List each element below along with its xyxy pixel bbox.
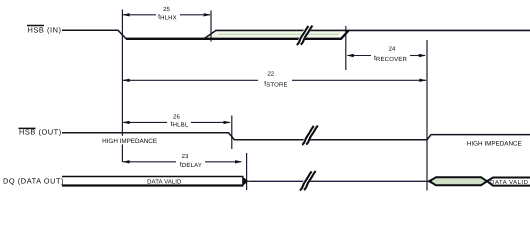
extent line x=211: [210, 11, 212, 42]
wire HSB(OUT) waveform: [62, 133, 530, 140]
svg-text:22: 22: [267, 71, 274, 78]
node label HSB (OUT): [19, 128, 62, 137]
dimension 25 tHLHX: [122, 6, 210, 21]
extent line x=122: [121, 10, 123, 163]
svg-text:tHLHX: tHLHX: [158, 14, 177, 22]
extent line x=345.8: [345, 26, 347, 70]
svg-text:tHLBL: tHLBL: [171, 121, 189, 129]
break mark on HSB(IN) band: [297, 26, 313, 45]
node DQ invalid (green) bus: [427, 177, 487, 185]
text HIGH IMPEDANCE left: [102, 136, 158, 145]
extent line x=246.6: [246, 153, 248, 190]
svg-text:25: 25: [163, 6, 170, 13]
svg-text:23: 23: [182, 153, 189, 160]
svg-text:DATA VALID: DATA VALID: [490, 179, 528, 186]
wire HSB(IN) high + fall + low: [62, 30, 206, 38]
dimension 24 tRECOVER: [347, 45, 426, 63]
node DQ left DATA VALID bus: [62, 176, 248, 186]
node HSB(IN) dont-care band fill: [206, 31, 340, 39]
svg-text:26: 26: [173, 113, 180, 120]
extent line x=232.5: [231, 116, 233, 150]
break mark on DQ: [300, 171, 316, 190]
svg-text:HIGH IMPEDANCE: HIGH IMPEDANCE: [102, 138, 157, 145]
svg-text:DATA VALID: DATA VALID: [147, 179, 182, 186]
dimension 23 tDELAY: [122, 153, 242, 169]
wire HSB(IN) band bottom thick + close rise: [126, 31, 349, 39]
wire HSB(IN) band open diagonal and top line: [205, 30, 530, 38]
svg-text:tSTORE: tSTORE: [264, 81, 288, 89]
svg-text:tDELAY: tDELAY: [180, 161, 202, 169]
svg-text:24: 24: [389, 45, 396, 52]
svg-text:HSB (IN): HSB (IN): [28, 25, 62, 34]
extent line x=427: [426, 40, 428, 191]
node label HSB (IN): [27, 25, 61, 34]
svg-text:DQ (DATA OUT): DQ (DATA OUT): [3, 176, 64, 185]
dimension 26 tHLBL: [122, 113, 230, 128]
wire DQ mid line: [248, 180, 427, 182]
svg-text:tRECOVER: tRECOVER: [374, 55, 407, 63]
break mark on HSB(OUT): [302, 126, 318, 145]
node DQ right DATA VALID bus: [487, 178, 530, 186]
svg-text:HIGH IMPEDANCE: HIGH IMPEDANCE: [467, 140, 522, 147]
dimension 22 tSTORE: [122, 71, 426, 89]
